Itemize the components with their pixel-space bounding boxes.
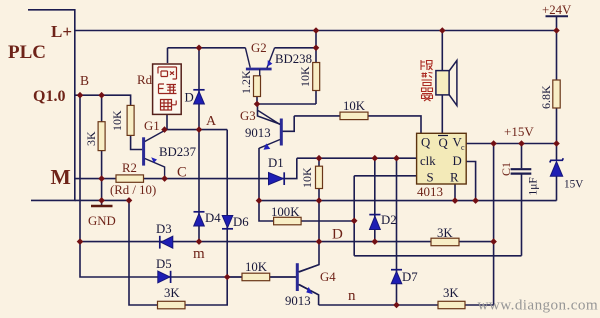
wire D net row y241.6 <box>199 241 494 243</box>
wire 10K base G4 row gap filled <box>227 276 296 278</box>
junction node m <box>196 238 203 245</box>
diode D7 bar <box>391 269 402 271</box>
junction 3K right end on D row <box>490 238 497 245</box>
diode D solenoid <box>194 91 205 104</box>
junction 6.8K bottom zener top on +15V line <box>553 140 560 147</box>
resistor 10K clk vertical <box>316 166 323 188</box>
wire y256 line to C1 <box>354 255 521 257</box>
svg-text:c: c <box>461 143 465 152</box>
svg-text:PLC: PLC <box>8 42 46 63</box>
svg-text:GND: GND <box>88 214 116 228</box>
svg-text:D: D <box>453 154 462 168</box>
wire left y48 segment <box>168 47 246 49</box>
svg-text:9013: 9013 <box>285 294 311 308</box>
wire n row <box>319 304 494 306</box>
junction Q1 collector node A row <box>161 126 168 133</box>
diode D6 bar <box>222 228 233 230</box>
wire GND feedback row <box>75 130 227 305</box>
junction Q1 emitter on C row <box>161 175 168 182</box>
junction G4 collector on D row <box>316 238 323 245</box>
capacitor C1 plates <box>511 168 532 170</box>
svg-text:1.2K: 1.2K <box>239 70 253 94</box>
wire G4 collector vertical <box>299 201 319 272</box>
diode D1 bar <box>283 172 285 185</box>
svg-text:Rd: Rd <box>137 72 153 87</box>
power +24V bar <box>546 15 569 17</box>
wire G4 emitter to n row <box>299 285 319 306</box>
junction G2 emitter riser on +24V rail <box>313 27 320 34</box>
junction y48 segment to 10K <box>313 45 320 52</box>
junction +24V drop on rail <box>553 27 560 34</box>
wire Q1.0 B row <box>75 95 131 105</box>
wire GND stub <box>101 179 103 205</box>
diode D4 <box>194 213 205 226</box>
wire +15V riser right <box>493 144 495 306</box>
svg-text:D5: D5 <box>156 257 172 271</box>
resistor R2 <box>116 175 144 182</box>
svg-text:S: S <box>427 171 434 185</box>
svg-text:R: R <box>450 171 459 185</box>
wire R pin stub <box>454 184 456 201</box>
svg-text:Q1.0: Q1.0 <box>33 88 65 105</box>
wire 10K bottom to G1 base <box>131 135 143 149</box>
svg-text:+15V: +15V <box>504 124 534 139</box>
wire 10K stub clk <box>318 158 320 200</box>
svg-text:15V: 15V <box>564 179 583 191</box>
svg-text:n: n <box>348 288 356 304</box>
svg-text:10K: 10K <box>110 110 124 131</box>
diode D6 <box>222 216 233 228</box>
wire 3K stub bottom <box>101 151 103 179</box>
junction R pin on y201 line <box>452 197 459 204</box>
junction 3K top on B row <box>98 92 105 99</box>
svg-text:BD238: BD238 <box>275 52 312 66</box>
svg-text:BD237: BD237 <box>159 145 197 159</box>
svg-text:3K: 3K <box>443 286 459 300</box>
transistor Q2 BD238 <box>246 68 272 71</box>
junction 3K bottom on M row <box>98 175 105 182</box>
diode D1 <box>269 173 284 185</box>
svg-text:10K: 10K <box>300 167 314 188</box>
junction 1.2K bottom node <box>254 101 261 108</box>
svg-text:100K: 100K <box>271 205 300 219</box>
svg-text:Q: Q <box>421 136 431 150</box>
wire Vc +15V line <box>466 143 556 145</box>
diode D4 bar <box>194 211 205 213</box>
svg-text:M: M <box>51 165 71 189</box>
svg-text:www.diangon.com: www.diangon.com <box>478 297 599 314</box>
resistor 3K bottom left <box>158 301 186 309</box>
wire D pin stub <box>466 162 475 201</box>
junction 10K bottom on y201 line <box>316 197 323 204</box>
svg-text:clk: clk <box>420 154 436 168</box>
svg-text:3K: 3K <box>437 226 453 240</box>
wire G3 base stub <box>282 116 294 131</box>
wire 1.2K to node row <box>257 91 316 105</box>
resistor 3K left vertical <box>98 122 105 151</box>
wire M C row <box>75 158 297 178</box>
diode D2 bar <box>369 214 380 216</box>
junction B riser to D3 row <box>77 238 84 245</box>
wire 3K stub top <box>101 95 103 122</box>
junction G3 emitter node <box>256 197 263 204</box>
junction diode D branch on y48 line <box>196 45 203 52</box>
junction speaker on +24V rail <box>439 27 446 34</box>
svg-text:G2: G2 <box>251 41 267 55</box>
junction 100K right end <box>351 218 358 225</box>
diode zener bar with wings <box>550 158 564 162</box>
wire C1 riser <box>521 144 523 256</box>
diode D3 bar <box>159 236 161 249</box>
svg-text:4013: 4013 <box>417 184 443 199</box>
svg-text:G4: G4 <box>320 270 336 284</box>
wire S pin line <box>354 176 416 256</box>
junction 10K top on clk line <box>316 155 323 162</box>
svg-text:10K: 10K <box>245 260 268 274</box>
svg-text:L+: L+ <box>51 22 72 41</box>
svg-text:10K: 10K <box>298 66 312 87</box>
resistor 100K <box>274 217 302 225</box>
junction D pin on y201 line <box>472 197 479 204</box>
svg-text:9013: 9013 <box>245 126 271 140</box>
svg-text:R2: R2 <box>122 161 137 175</box>
diode D5 <box>158 271 170 283</box>
svg-text:10K: 10K <box>343 99 366 113</box>
pin Qbar overbar <box>438 135 448 137</box>
wire D branch vertical <box>198 48 200 242</box>
wire zener branch <box>556 144 558 201</box>
resistor 1.2K <box>254 76 261 97</box>
wire node B vertical to D3 row <box>80 95 296 277</box>
svg-text:A: A <box>206 114 217 129</box>
junction D2 bottom on D row <box>372 238 379 245</box>
resistor 10K feedback horizontal <box>340 112 368 120</box>
diode D7 <box>391 271 402 284</box>
svg-text:1μF: 1μF <box>528 177 540 195</box>
resistor 3K n row <box>438 301 465 308</box>
junction D6 riser on D5 row <box>224 274 231 281</box>
ground GND symbol <box>91 205 113 207</box>
wire G3 collector riser <box>258 104 282 125</box>
svg-text:3K: 3K <box>84 131 98 146</box>
svg-text:3K: 3K <box>164 286 180 300</box>
svg-text:D4: D4 <box>205 211 221 225</box>
svg-text:D: D <box>185 91 194 105</box>
diode D2 <box>370 216 381 229</box>
resistor 10K left vertical <box>127 105 134 135</box>
wire D2 vertical <box>374 158 376 241</box>
svg-text:6.8K: 6.8K <box>539 85 553 109</box>
junction D7 riser on clk line <box>393 155 400 162</box>
svg-text:m: m <box>193 246 205 262</box>
svg-text:D6: D6 <box>233 215 249 229</box>
solenoid valve box <box>153 64 182 114</box>
junction D2 riser on clk line <box>372 155 379 162</box>
wire S R D net row y200.6 <box>259 200 557 202</box>
wire speaker riser <box>441 31 443 134</box>
svg-text:B: B <box>80 73 89 88</box>
svg-text:D3: D3 <box>156 222 172 236</box>
junction D7 bottom on n row <box>393 302 400 309</box>
junction right riser on +15V line <box>490 140 497 147</box>
chinese 报警器 alarm vertical <box>421 60 433 101</box>
svg-text:G1: G1 <box>144 119 160 133</box>
svg-text:G3: G3 <box>240 109 256 123</box>
wire D3 m row <box>80 241 199 243</box>
wire G2 emitter riser and right y48 segment <box>275 31 316 63</box>
transistor Q3 9013 G3 <box>280 119 283 146</box>
junction node B at Q1.0 row <box>77 92 84 99</box>
speaker driver box <box>436 71 449 95</box>
speaker cone <box>449 60 457 105</box>
wire +24V branch 6.8K <box>556 16 558 143</box>
svg-text:C1: C1 <box>499 162 513 176</box>
svg-text:Q: Q <box>439 136 449 150</box>
wire solenoid bottom stub <box>166 114 168 130</box>
wire PLC bracket outline <box>28 10 75 201</box>
wire node A row <box>165 129 228 131</box>
svg-text:(Rd / 10): (Rd / 10) <box>110 183 156 197</box>
diode zener 15V <box>550 162 562 177</box>
svg-text:D7: D7 <box>402 270 418 284</box>
svg-text:C: C <box>177 165 187 181</box>
diode D5 bar <box>170 271 172 283</box>
IC U1 4013 box <box>417 133 467 184</box>
chinese 电磁阀 solenoid vertical rotated <box>158 67 177 110</box>
svg-text:D1: D1 <box>268 156 284 170</box>
resistor 3K D row <box>431 238 459 246</box>
transistor Q1 BD237 <box>142 137 145 165</box>
wire D7 vertical <box>396 158 398 305</box>
wire G3 emitter drop <box>258 148 260 201</box>
junction diode D on node A row <box>196 126 203 133</box>
svg-text:D: D <box>332 227 343 243</box>
diode D3 <box>161 236 173 248</box>
resistor 10K G2 vertical <box>313 63 320 91</box>
junction C1 on +15V line <box>518 140 525 147</box>
wire L+ +24V rail <box>75 30 557 32</box>
resistor 10K G4 base <box>242 273 270 281</box>
wire 100K loop <box>259 201 354 221</box>
wire clk line <box>297 157 417 159</box>
wire Q feedback line y116 <box>294 116 421 133</box>
diode D bar <box>193 89 204 91</box>
wire solenoid top stub <box>167 48 169 63</box>
transistor Q4 9013 G4 <box>296 263 299 291</box>
resistor 6.8K <box>553 80 560 108</box>
svg-text:D2: D2 <box>381 213 397 227</box>
junction GND row to bottom riser <box>126 197 133 204</box>
junction GND tap <box>98 197 105 204</box>
svg-text:+24V: +24V <box>542 3 572 17</box>
